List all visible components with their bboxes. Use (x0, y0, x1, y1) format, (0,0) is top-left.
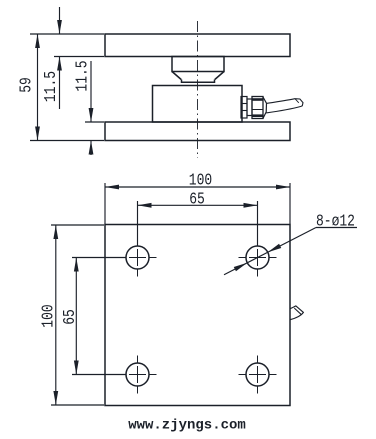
svg-text:11.5: 11.5 (72, 60, 92, 91)
svg-text:65: 65 (59, 309, 79, 325)
svg-text:100: 100 (189, 170, 212, 190)
svg-text:www.zjyngs.com: www.zjyngs.com (128, 418, 246, 434)
svg-text:8-ø12: 8-ø12 (316, 211, 355, 231)
svg-text:11.5: 11.5 (40, 71, 60, 102)
svg-text:59: 59 (16, 77, 36, 93)
svg-text:100: 100 (38, 304, 58, 327)
svg-text:65: 65 (189, 189, 205, 209)
